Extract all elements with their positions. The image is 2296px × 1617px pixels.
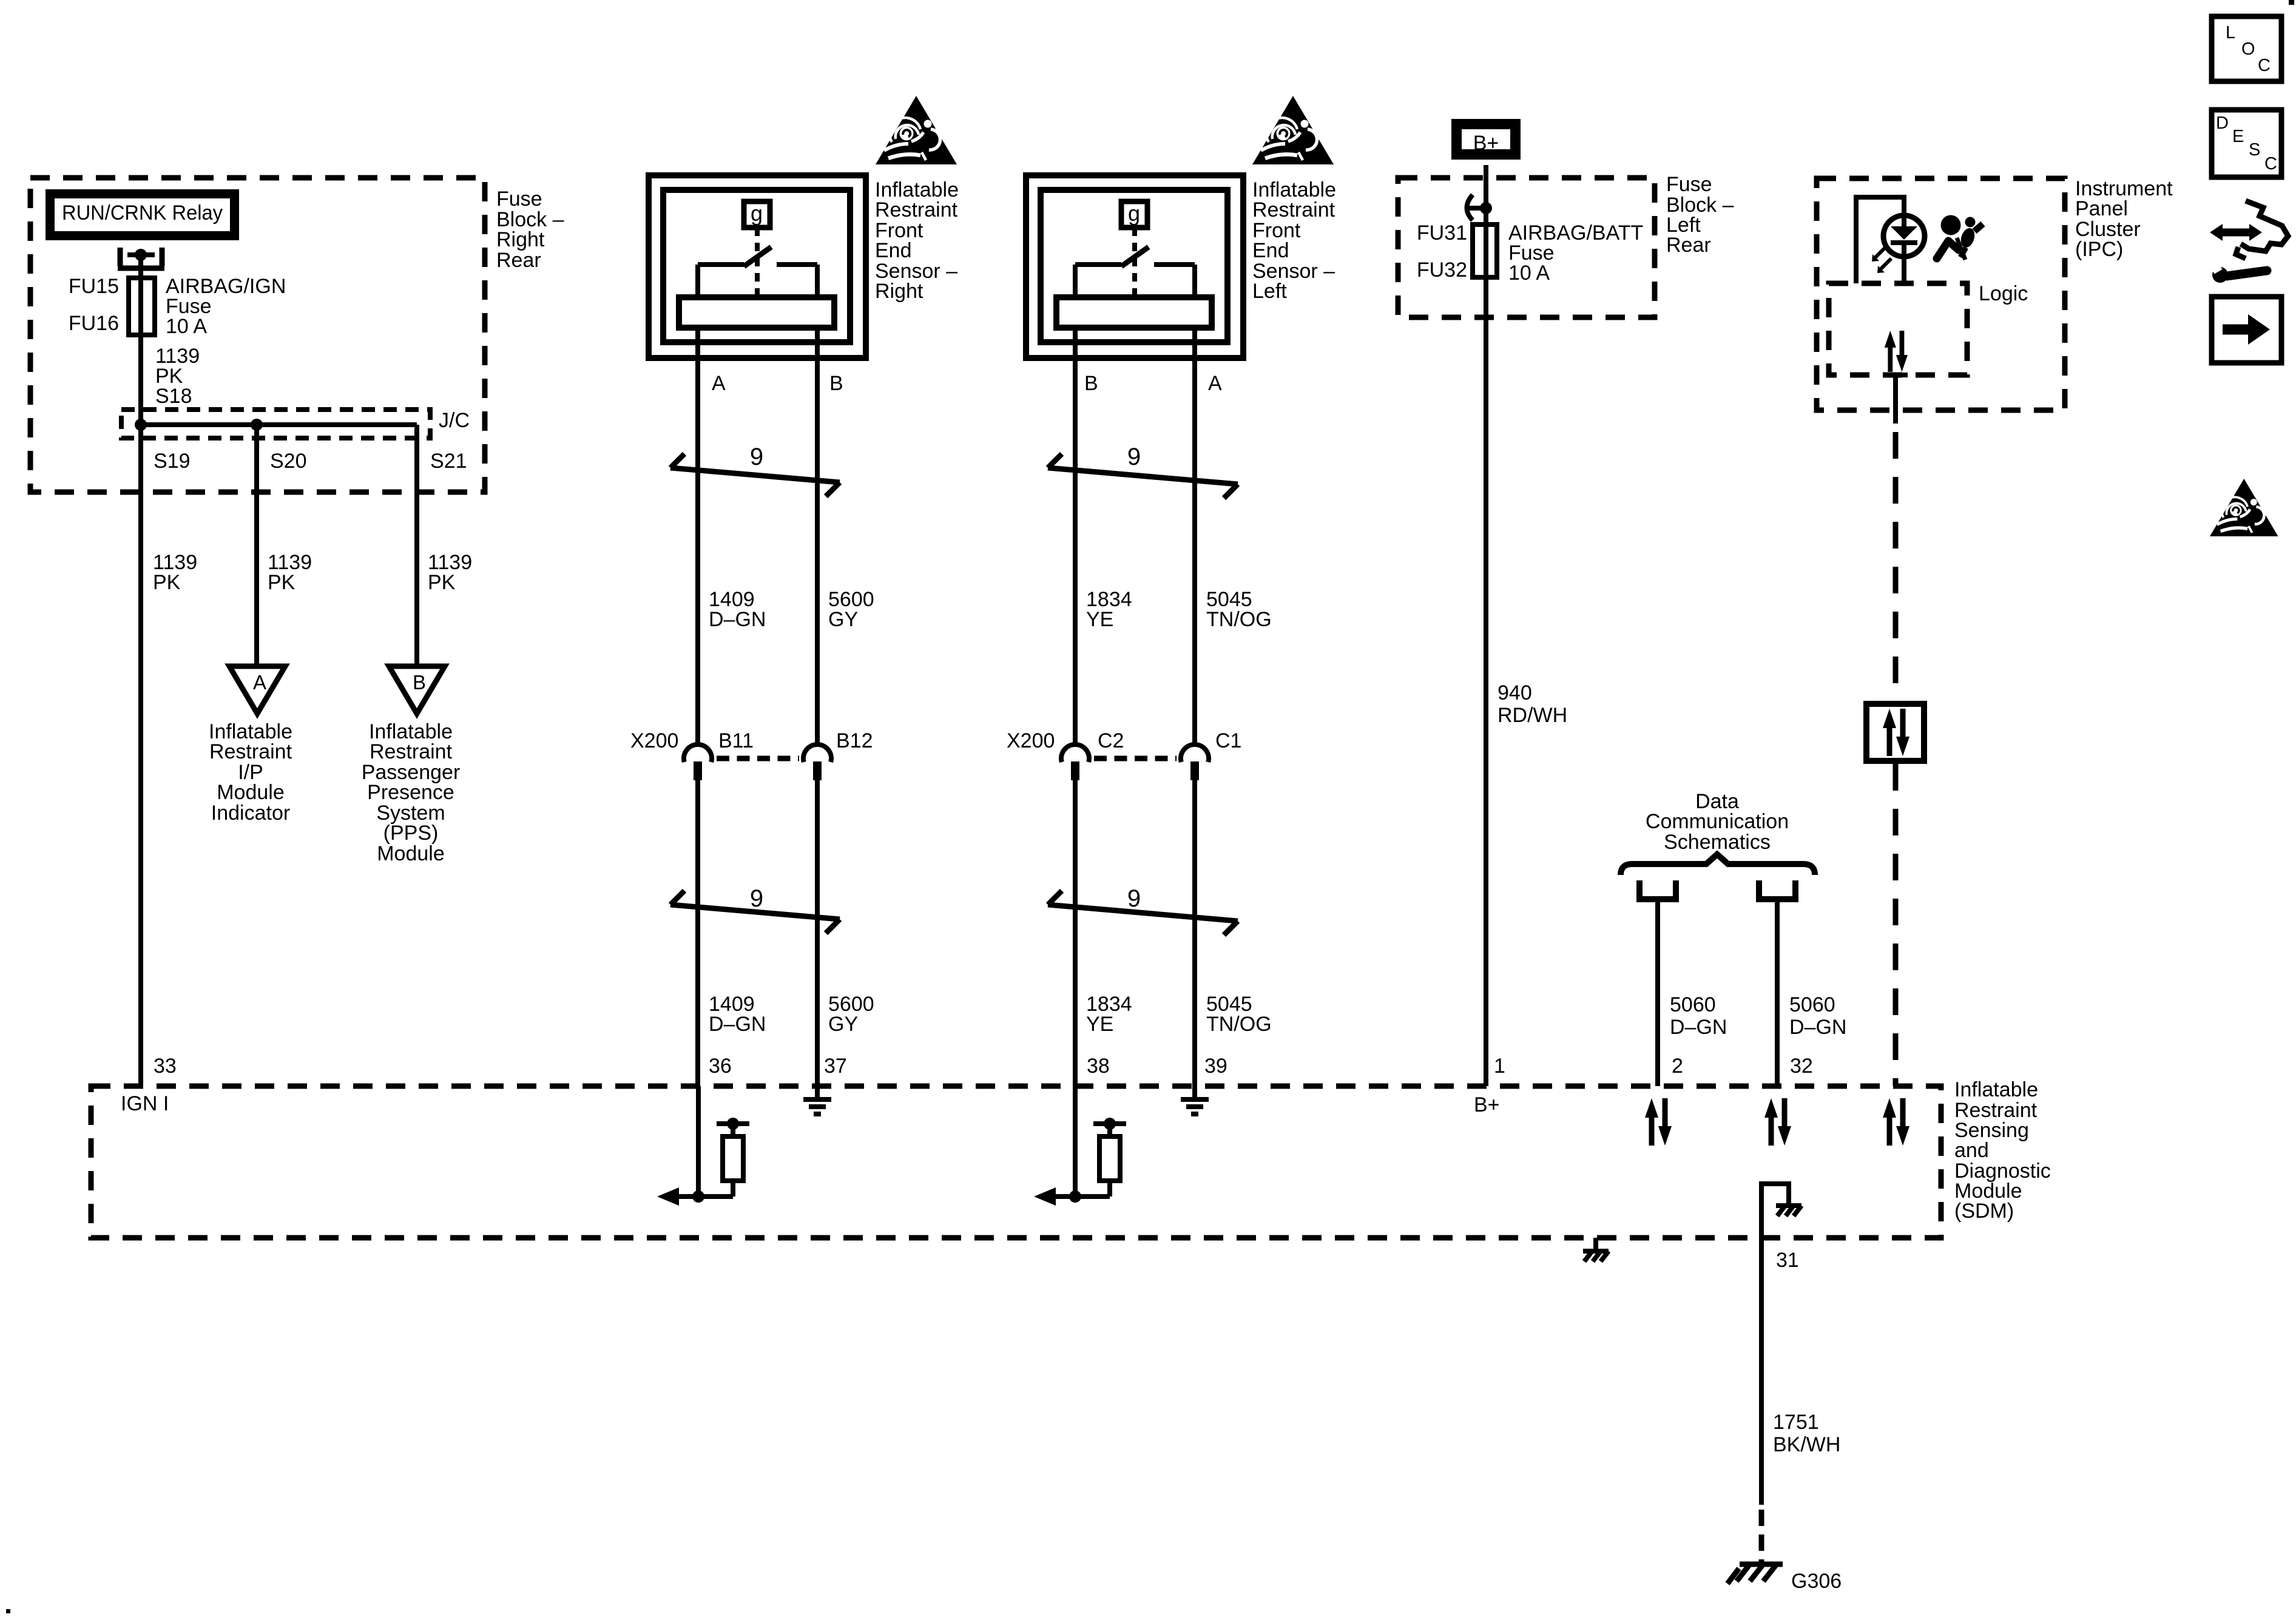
- svg-text:B11: B11: [718, 729, 754, 752]
- svg-text:Restraint: Restraint: [209, 740, 292, 763]
- harness path 9 (upper, right sensor wires): [670, 444, 840, 496]
- svg-text:5060: 5060: [1789, 993, 1835, 1016]
- svg-text:Panel: Panel: [2075, 197, 2128, 220]
- ground G306: [1727, 1564, 1842, 1593]
- svg-text:X200: X200: [630, 729, 678, 752]
- svg-text:(PPS): (PPS): [383, 822, 439, 845]
- LED emission arrows: [1872, 247, 1891, 273]
- connector X200 terminal B11: [630, 729, 754, 780]
- off-page connector (data line 1): [1639, 880, 1676, 899]
- warning triangle (airbag caution) sensor right: [876, 96, 957, 164]
- wire 5045 TN/OG upper (sensor A to X200 C1): [1192, 328, 1197, 746]
- SDM module (dashed enclosure): Inflatable Restraint Sensing and Diagnostic Module: [91, 1086, 1941, 1238]
- svg-text:g: g: [1128, 201, 1140, 226]
- svg-text:D–GN: D–GN: [709, 1013, 766, 1036]
- svg-text:Communication: Communication: [1646, 810, 1789, 833]
- svg-text:C: C: [2264, 154, 2277, 174]
- svg-text:J/C: J/C: [439, 409, 470, 432]
- wire 1139 PK (S19 to SDM pin 33): [138, 425, 143, 1086]
- svg-text:5060: 5060: [1670, 993, 1716, 1016]
- svg-text:37: 37: [824, 1055, 847, 1078]
- svg-text:GY: GY: [828, 608, 858, 631]
- svg-text:Logic: Logic: [1979, 282, 2028, 305]
- wire 1751 BK/WH (pin 31 to G306): [1759, 1238, 1764, 1505]
- SDM internal ground pin 37: [803, 1086, 831, 1114]
- wire 5600 GY lower (X200 to SDM pin 37): [815, 779, 820, 1086]
- svg-text:E: E: [2232, 127, 2244, 146]
- svg-text:IGN I: IGN I: [121, 1092, 169, 1115]
- svg-text:End: End: [1252, 239, 1289, 262]
- svg-text:FU31: FU31: [1417, 221, 1467, 245]
- indicator lamp LED circuit wires: [1856, 197, 1904, 283]
- wire 1409 D-GN lower (X200 to SDM pin 36): [695, 779, 700, 1086]
- connector X200 terminal C2: [1007, 729, 1124, 780]
- svg-text:g: g: [751, 201, 763, 226]
- svg-text:X200: X200: [1007, 729, 1055, 752]
- warning triangle (airbag caution) page margin: [2210, 479, 2278, 536]
- svg-text:Fuse: Fuse: [1666, 173, 1712, 196]
- fuse FU31/FU32 AIRBAG/BATT 10 A: [1473, 224, 1497, 277]
- SDM case ground on bottom edge: [1583, 1238, 1609, 1261]
- svg-text:Right: Right: [496, 228, 545, 251]
- svg-text:RD/WH: RD/WH: [1497, 704, 1567, 727]
- svg-text:B: B: [413, 671, 426, 694]
- relay RUN/CRNK Relay: [50, 194, 235, 236]
- fuse block - right rear (dashed enclosure): [30, 178, 485, 492]
- svg-text:Left: Left: [1252, 280, 1287, 303]
- SDM internal case ground at pin 31: [1761, 1184, 1801, 1238]
- svg-text:BK/WH: BK/WH: [1773, 1433, 1840, 1456]
- SDM internal sense circuit pin 36: [657, 1086, 749, 1206]
- svg-text:S21: S21: [430, 450, 467, 473]
- brace: [1621, 854, 1815, 875]
- legend icon next (arrow box): [2212, 297, 2281, 363]
- LED airbag indicator: [1883, 215, 1925, 257]
- connector X200 jumper dash: [1094, 756, 1177, 761]
- svg-text:PK: PK: [268, 571, 295, 594]
- svg-text:TN/OG: TN/OG: [1206, 608, 1272, 631]
- SDM serial data arrows (IPC line): [1883, 1098, 1909, 1146]
- svg-text:9: 9: [750, 444, 763, 470]
- node S19: [135, 419, 147, 431]
- svg-text:Module: Module: [217, 781, 285, 804]
- node at fuse feed: [1480, 202, 1492, 214]
- svg-text:YE: YE: [1086, 1013, 1113, 1036]
- svg-text:S: S: [2249, 140, 2260, 160]
- svg-text:Rear: Rear: [1666, 234, 1711, 257]
- wire 5600 GY upper (sensor B to X200 B12): [815, 328, 820, 746]
- connector X200 jumper dash: [717, 756, 799, 761]
- bus wire in J/C: [141, 422, 417, 427]
- svg-text:A: A: [712, 372, 726, 395]
- svg-text:C1: C1: [1215, 729, 1241, 752]
- fuse clip symbol: [1467, 195, 1473, 220]
- node S20: [251, 419, 263, 431]
- svg-text:940: 940: [1497, 681, 1532, 704]
- SDM serial data arrows pin 2: [1645, 1098, 1672, 1146]
- wire 1834 YE lower (X200 to SDM pin 38): [1073, 779, 1078, 1086]
- svg-text:38: 38: [1087, 1055, 1110, 1078]
- svg-text:10 A: 10 A: [166, 315, 207, 338]
- svg-text:A: A: [253, 671, 266, 694]
- svg-text:Indicator: Indicator: [211, 802, 290, 825]
- harness path 9 (upper, left sensor wires): [1048, 444, 1238, 498]
- svg-text:and: and: [1954, 1139, 1989, 1162]
- wire 5060 D-GN (to SDM pin 2): [1655, 899, 1660, 1086]
- svg-text:C: C: [2258, 56, 2271, 75]
- off-page connector (data line 2): [1759, 880, 1795, 899]
- svg-text:FU32: FU32: [1417, 258, 1467, 282]
- airbag warning pictograph: [1937, 215, 1983, 260]
- legend icon LOC: [2212, 16, 2281, 81]
- svg-text:1: 1: [1494, 1055, 1505, 1078]
- legend icon service (arrow, hand, wrench): [2210, 201, 2288, 283]
- dashed serial data wire to SDM: [1893, 764, 1899, 1086]
- harness path 9 (lower, right sensor wires): [670, 885, 840, 933]
- svg-text:Restraint: Restraint: [1252, 198, 1335, 221]
- svg-text:B: B: [829, 372, 843, 395]
- svg-text:End: End: [875, 239, 912, 262]
- wire 5045 TN/OG lower (X200 to SDM pin 39): [1192, 779, 1197, 1086]
- IPC pin lead: [1883, 373, 1908, 377]
- svg-text:S18: S18: [155, 385, 192, 408]
- svg-text:D–GN: D–GN: [1789, 1016, 1846, 1039]
- off-page connector B: Inflatable Restraint PPS Module: [389, 666, 445, 714]
- svg-text:9: 9: [750, 885, 763, 912]
- svg-text:A: A: [1208, 372, 1222, 395]
- serial data arrows in logic: [1885, 331, 1908, 372]
- svg-text:GY: GY: [828, 1013, 858, 1036]
- svg-text:31: 31: [1776, 1249, 1799, 1272]
- svg-text:D–GN: D–GN: [709, 608, 766, 631]
- svg-text:32: 32: [1790, 1055, 1813, 1078]
- svg-text:PK: PK: [428, 571, 456, 594]
- svg-text:Inflatable: Inflatable: [1954, 1078, 2038, 1101]
- svg-text:9: 9: [1127, 444, 1141, 470]
- svg-text:36: 36: [709, 1055, 732, 1078]
- svg-text:Rear: Rear: [496, 249, 541, 272]
- sensor G2: Inflatable Restraint Front End Sensor - Left: [1026, 175, 1243, 358]
- svg-text:S19: S19: [154, 450, 191, 473]
- connector X200 terminal C1: [1181, 729, 1241, 780]
- svg-text:10 A: 10 A: [1508, 262, 1550, 285]
- svg-text:S20: S20: [270, 450, 307, 473]
- svg-text:(IPC): (IPC): [2075, 238, 2123, 261]
- wire 1139 PK (S21 to PPS module): [414, 425, 419, 666]
- svg-text:RUN/CRNK Relay: RUN/CRNK Relay: [62, 201, 223, 224]
- svg-text:Right: Right: [875, 280, 923, 303]
- fuse FU15/FU16 AIRBAG/IGN 10 A: [129, 278, 155, 335]
- wire 940 RD/WH (B+ to SDM pin 1): [1484, 165, 1488, 1086]
- svg-text:TN/OG: TN/OG: [1206, 1013, 1272, 1036]
- svg-text:33: 33: [154, 1055, 177, 1078]
- dashed serial data wire IPC to gateway box: [1893, 432, 1899, 701]
- svg-text:Fuse: Fuse: [496, 187, 542, 211]
- wire continuation (dashed): [1759, 1510, 1764, 1564]
- svg-text:Presence: Presence: [367, 781, 454, 804]
- power feed B+: [1457, 124, 1516, 155]
- svg-text:1751: 1751: [1773, 1411, 1819, 1434]
- warning triangle (airbag caution) sensor left: [1252, 96, 1334, 164]
- svg-text:FU15: FU15: [69, 275, 119, 298]
- svg-text:39: 39: [1204, 1055, 1227, 1078]
- svg-text:D: D: [2216, 113, 2229, 133]
- svg-text:L: L: [2226, 23, 2235, 42]
- svg-text:Restraint: Restraint: [875, 198, 958, 221]
- SDM serial data arrows pin 32: [1764, 1098, 1791, 1146]
- page registration marks: [2289, 0, 2294, 5]
- svg-text:B12: B12: [836, 729, 873, 752]
- svg-text:(SDM): (SDM): [1954, 1200, 2014, 1223]
- svg-text:FU16: FU16: [69, 312, 119, 335]
- fuse block - left rear (dashed enclosure): [1398, 178, 1655, 317]
- wire 1139 PK (S20 to I/P module indicator): [254, 425, 259, 666]
- off-page connector A: Inflatable Restraint I/P Module Indicator: [229, 666, 285, 714]
- serial data gateway box with arrows: [1866, 704, 1924, 761]
- wire 5060 D-GN (to SDM pin 32): [1775, 899, 1780, 1086]
- junction block J/C: [121, 410, 430, 438]
- svg-text:Schematics: Schematics: [1664, 831, 1771, 854]
- instrument panel cluster IPC (dashed enclosure): [1817, 178, 2065, 410]
- svg-text:9: 9: [1127, 885, 1141, 912]
- svg-text:D–GN: D–GN: [1670, 1016, 1727, 1039]
- svg-text:YE: YE: [1086, 608, 1113, 631]
- svg-text:Module: Module: [377, 842, 445, 865]
- svg-text:B+: B+: [1473, 132, 1499, 155]
- svg-text:PK: PK: [153, 571, 181, 594]
- wire 1409 D-GN upper (sensor A to X200 B11): [695, 328, 700, 746]
- SDM internal sense circuit pin 38: [1034, 1086, 1126, 1206]
- svg-text:B+: B+: [1474, 1093, 1500, 1116]
- svg-text:2: 2: [1672, 1055, 1683, 1078]
- harness path 9 (lower, left sensor wires): [1048, 885, 1238, 935]
- wire 1834 YE upper (sensor B to X200 C2): [1073, 328, 1078, 746]
- svg-text:C2: C2: [1098, 729, 1124, 752]
- relay contact symbol: [118, 248, 164, 268]
- wire from relay through fuse to J/C: [138, 255, 143, 425]
- svg-text:O: O: [2241, 39, 2255, 59]
- svg-text:B: B: [1084, 372, 1098, 395]
- svg-text:Restraint: Restraint: [370, 740, 453, 763]
- sensor G1: Inflatable Restraint Front End Sensor - Right: [649, 175, 866, 358]
- SDM internal ground pin 39: [1181, 1086, 1209, 1114]
- legend icon DESC: [2212, 110, 2281, 177]
- connector X200 terminal B12: [803, 729, 873, 780]
- svg-text:G306: G306: [1791, 1570, 1842, 1593]
- logic block (dashed): [1829, 283, 1967, 375]
